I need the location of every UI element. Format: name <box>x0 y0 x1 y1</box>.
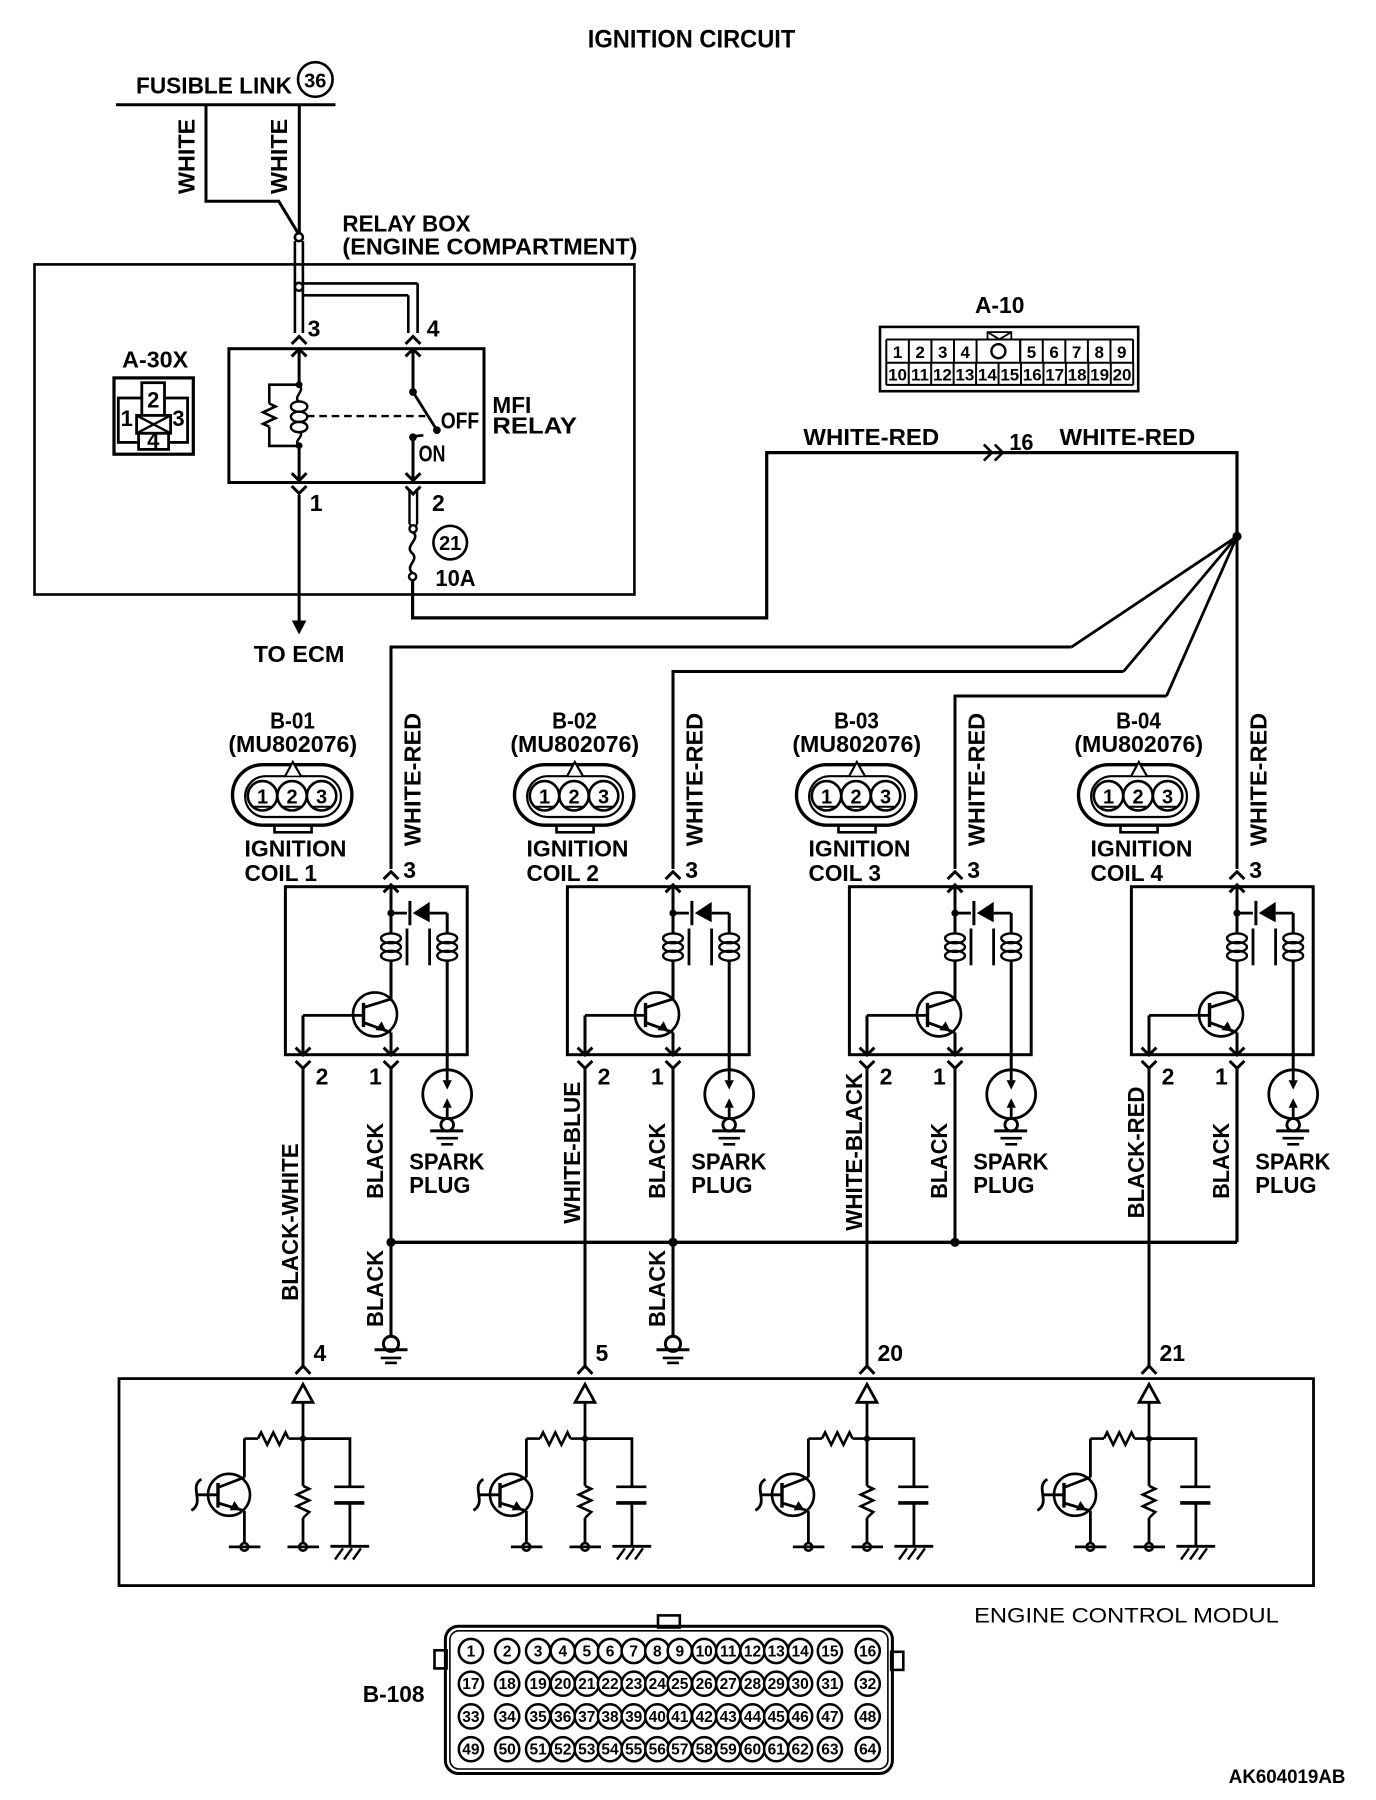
svg-text:17: 17 <box>462 1676 479 1693</box>
svg-text:PLUG: PLUG <box>409 1172 470 1198</box>
svg-text:BLACK-RED: BLACK-RED <box>1123 1087 1149 1219</box>
ECM channel 2 ground <box>612 1546 651 1559</box>
connector A-10 pin numbers <box>888 343 1131 384</box>
svg-text:11: 11 <box>911 366 929 385</box>
svg-text:6: 6 <box>1049 343 1058 362</box>
coil 1 base wire to pin 2 <box>302 1015 305 1054</box>
svg-text:RELAY: RELAY <box>492 413 577 439</box>
ECM channel 2 pulldown terminal <box>584 1518 587 1543</box>
svg-text:12: 12 <box>933 366 952 385</box>
ECM channel 4 emitter terminal <box>1089 1511 1092 1543</box>
svg-text:55: 55 <box>625 1742 643 1759</box>
spark plug 2 ground <box>712 1119 745 1145</box>
svg-text:(ENGINE COMPARTMENT): (ENGINE COMPARTMENT) <box>342 234 637 260</box>
fusible link 21 bottom terminal circle <box>409 573 416 580</box>
ignition coil 4 box <box>1131 887 1313 1055</box>
coil 4 secondary winding <box>1292 913 1295 933</box>
svg-text:63: 63 <box>821 1742 839 1759</box>
ECM channel 2 base squiggle <box>479 1493 500 1496</box>
coil 2 pin 3 arrows <box>666 872 681 879</box>
coil 2 core <box>688 929 691 966</box>
svg-text:4: 4 <box>314 1340 327 1366</box>
ECM channel 2 base resistor <box>571 1437 586 1440</box>
svg-text:1: 1 <box>121 406 133 431</box>
svg-text:IGNITION: IGNITION <box>1091 836 1193 862</box>
svg-text:45: 45 <box>768 1709 786 1726</box>
svg-text:3: 3 <box>938 343 947 362</box>
coil 2 primary winding <box>663 933 683 943</box>
coil 3 flyback diode <box>955 912 971 915</box>
wire WHITE right from fusible link <box>298 105 301 234</box>
ECM channel 1 emitter terminal <box>243 1511 246 1543</box>
coil 4 secondary wire to spark plug <box>1292 960 1295 1069</box>
svg-text:10: 10 <box>888 366 907 385</box>
svg-text:19: 19 <box>1090 366 1109 385</box>
svg-text:BLACK: BLACK <box>644 1250 670 1327</box>
svg-text:9: 9 <box>675 1644 684 1661</box>
svg-text:WHITE-RED: WHITE-RED <box>399 713 425 847</box>
fusible link 21 connector barrel <box>408 489 410 524</box>
coil 4 pin 3 arrows <box>1230 872 1245 879</box>
connector B-01 symbol <box>233 762 352 832</box>
connector A-30X symbol <box>114 378 193 454</box>
ground bus junction dot coil 1 <box>386 1238 395 1247</box>
svg-text:A-10: A-10 <box>975 292 1025 318</box>
svg-text:2: 2 <box>850 787 861 809</box>
ignition coil 1 box <box>285 887 467 1055</box>
ground bus junction dot coil 3 <box>950 1238 959 1247</box>
svg-text:1: 1 <box>310 490 323 516</box>
svg-text:44: 44 <box>744 1709 762 1726</box>
coil 3 emitter wire to pin 1 <box>954 1033 957 1055</box>
coil 1 primary wire to transistor <box>390 960 393 999</box>
svg-text:1: 1 <box>1103 787 1114 809</box>
svg-text:5: 5 <box>596 1340 609 1366</box>
coil 2 secondary wire to spark plug <box>728 960 731 1069</box>
junction node of coil feeds <box>1232 532 1241 541</box>
ground coil 2 <box>665 1336 680 1351</box>
feed diagonal to coil 2 <box>1124 536 1238 671</box>
svg-text:WHITE-RED: WHITE-RED <box>1245 713 1271 847</box>
relay wire to pin 1 <box>298 446 301 480</box>
circled 21 <box>433 526 467 560</box>
svg-text:2: 2 <box>503 1644 512 1661</box>
svg-text:PLUG: PLUG <box>1255 1172 1316 1198</box>
ECM channel 1 collector wire <box>243 1439 246 1478</box>
coil 1 secondary wire to spark plug <box>446 960 449 1069</box>
connector B-04 symbol <box>1079 762 1198 832</box>
svg-text:33: 33 <box>462 1709 480 1726</box>
svg-text:8: 8 <box>1094 343 1103 362</box>
svg-text:BLACK: BLACK <box>1208 1123 1234 1199</box>
connector B-108 shell <box>435 1615 904 1773</box>
svg-text:COIL 3: COIL 3 <box>809 860 882 886</box>
svg-text:2: 2 <box>1132 787 1143 809</box>
svg-text:7: 7 <box>629 1644 638 1661</box>
coil 4 transistor base wire <box>1149 1014 1210 1017</box>
coil 1 emitter wire to pin 1 <box>390 1033 393 1055</box>
ECM channel 1 base resistor <box>289 1437 304 1440</box>
svg-text:64: 64 <box>859 1742 877 1759</box>
svg-text:8: 8 <box>653 1644 662 1661</box>
svg-text:46: 46 <box>791 1709 809 1726</box>
ECM channel 4 ground <box>1176 1546 1215 1559</box>
svg-text:16: 16 <box>859 1644 877 1661</box>
svg-text:IGNITION: IGNITION <box>527 836 629 862</box>
ECM channel 4 pulldown resistor <box>1148 1439 1151 1486</box>
svg-text:B-108: B-108 <box>363 1681 425 1707</box>
ECM pin 5 input triangle <box>575 1384 595 1402</box>
ECM channel 3 capacitor C3 <box>867 1439 914 1487</box>
ECM channel 3 pin wire <box>866 1402 869 1438</box>
relay switch blade <box>413 392 437 430</box>
ECM pin 21 input triangle <box>1139 1384 1159 1402</box>
relay pin 1 arrows <box>292 473 307 480</box>
coil 3 primary top wire and junction dot <box>954 887 957 933</box>
svg-text:1: 1 <box>257 787 268 809</box>
svg-text:12: 12 <box>744 1644 761 1661</box>
relay switch pivot dot <box>409 388 417 396</box>
engine control module box <box>119 1379 1314 1586</box>
ECM channel 1 pulldown terminal <box>302 1518 305 1543</box>
inline connector 16 arrows <box>984 445 992 461</box>
relay box (engine compartment) outline <box>35 264 635 594</box>
svg-text:3: 3 <box>308 316 321 342</box>
ECM channel 1 base squiggle <box>197 1493 218 1496</box>
svg-text:WHITE-RED: WHITE-RED <box>963 713 989 847</box>
svg-text:B-04: B-04 <box>1116 708 1161 734</box>
connector B-03 symbol <box>797 762 916 832</box>
svg-text:18: 18 <box>499 1676 517 1693</box>
svg-text:31: 31 <box>821 1676 839 1693</box>
coil 2 emitter wire to pin 1 <box>672 1033 675 1055</box>
svg-text:39: 39 <box>625 1709 643 1726</box>
feed wire to ignition coil 2 <box>673 672 1124 870</box>
fusible link bus line <box>116 103 336 106</box>
svg-text:(MU802076): (MU802076) <box>792 731 921 757</box>
ground bus junction dot coil 2 <box>668 1238 677 1247</box>
svg-text:3: 3 <box>880 787 891 809</box>
coil 2 secondary winding <box>728 913 731 933</box>
coil 1 core <box>406 929 409 966</box>
svg-text:48: 48 <box>859 1709 877 1726</box>
ECM channel 4 capacitor C4 <box>1149 1439 1196 1487</box>
svg-text:58: 58 <box>696 1742 714 1759</box>
double-line wire branch to relay pin 4 <box>303 282 418 285</box>
ECM pin 4 input triangle <box>293 1384 313 1402</box>
svg-text:IGNITION: IGNITION <box>809 836 911 862</box>
svg-text:6: 6 <box>606 1644 615 1661</box>
svg-text:21: 21 <box>1160 1340 1186 1366</box>
svg-text:PLUG: PLUG <box>691 1172 752 1198</box>
svg-text:BLACK: BLACK <box>644 1123 670 1199</box>
coil 2 pin 1 arrows <box>666 1048 681 1055</box>
ECM channel 1 pulldown resistor <box>302 1439 305 1486</box>
svg-text:14: 14 <box>978 366 997 385</box>
connector A-10 index circle <box>991 344 1005 358</box>
coil 2 base wire to pin 2 <box>584 1015 587 1054</box>
MFI relay box <box>229 349 484 483</box>
svg-text:29: 29 <box>768 1676 786 1693</box>
coil 4 emitter wire to pin 1 <box>1236 1033 1239 1055</box>
svg-text:60: 60 <box>744 1742 761 1759</box>
coil 4 primary winding <box>1227 933 1247 943</box>
wire relay pin 1 to ECM <box>298 495 301 621</box>
relay wire to pin 2 <box>412 437 415 480</box>
ECM channel 2 pin wire <box>584 1402 587 1438</box>
relay coil top junction dot <box>296 381 303 388</box>
svg-text:AK604019AB: AK604019AB <box>1229 1767 1346 1788</box>
relay switch OFF contact dot <box>433 426 441 434</box>
svg-text:3: 3 <box>316 787 327 809</box>
ECM channel 3 base resistor <box>853 1437 868 1440</box>
wire BLACK coil 1 pin 1 <box>390 1068 393 1336</box>
spark plug 2 <box>705 1070 754 1119</box>
wire WHITE-BLACK coil 3 pin 2 to ECM <box>866 1068 869 1367</box>
svg-text:COIL 2: COIL 2 <box>527 860 600 886</box>
svg-text:2: 2 <box>147 388 159 413</box>
ECM channel 3 pulldown resistor <box>866 1439 869 1486</box>
ECM channel 4 pin wire <box>1148 1402 1151 1438</box>
coil 4 base wire to pin 2 <box>1148 1015 1151 1054</box>
svg-text:49: 49 <box>462 1742 480 1759</box>
svg-text:3: 3 <box>1162 787 1173 809</box>
feed diagonal to coil 1 <box>1072 536 1238 647</box>
ECM channel 3 node dot <box>864 1435 870 1441</box>
svg-text:10: 10 <box>696 1644 713 1661</box>
coil 1 secondary winding <box>446 913 449 933</box>
svg-text:16: 16 <box>1009 429 1033 455</box>
coil 2 transistor base wire <box>585 1014 646 1017</box>
svg-text:5: 5 <box>582 1644 591 1661</box>
coil 3 primary wire to transistor <box>954 960 957 999</box>
svg-text:3: 3 <box>534 1644 543 1661</box>
coil 3 pin 2 arrows <box>860 1048 875 1055</box>
svg-text:19: 19 <box>529 1676 547 1693</box>
coil 2 flyback diode <box>673 912 689 915</box>
svg-text:11: 11 <box>720 1644 737 1661</box>
svg-text:1: 1 <box>539 787 550 809</box>
ECM pin 20 input triangle <box>857 1384 877 1402</box>
svg-text:50: 50 <box>499 1742 516 1759</box>
ECM pin 4 arrow <box>296 1366 311 1374</box>
ECM channel 2 node dot <box>582 1435 588 1441</box>
svg-text:59: 59 <box>720 1742 738 1759</box>
svg-text:3: 3 <box>172 406 184 431</box>
coil 2 primary top wire and junction dot <box>672 887 675 933</box>
svg-text:SPARK: SPARK <box>973 1149 1049 1175</box>
ECM channel 4 node dot <box>1146 1435 1152 1441</box>
svg-text:30: 30 <box>791 1676 808 1693</box>
svg-text:21: 21 <box>439 533 461 555</box>
svg-text:20: 20 <box>1113 366 1132 385</box>
svg-text:1: 1 <box>651 1064 664 1090</box>
svg-text:21: 21 <box>578 1676 596 1693</box>
svg-text:WHITE-RED: WHITE-RED <box>681 713 707 847</box>
double-line wire to relay pin 3 <box>294 241 297 333</box>
relay coil winding <box>297 385 301 402</box>
svg-text:2: 2 <box>598 1064 611 1090</box>
svg-text:24: 24 <box>649 1676 667 1693</box>
connector B-108 pins <box>459 1639 880 1761</box>
svg-text:2: 2 <box>915 343 924 362</box>
svg-text:35: 35 <box>529 1709 547 1726</box>
svg-text:10A: 10A <box>435 565 475 591</box>
svg-text:20: 20 <box>554 1676 571 1693</box>
svg-text:57: 57 <box>671 1742 688 1759</box>
svg-text:PLUG: PLUG <box>973 1172 1034 1198</box>
svg-text:54: 54 <box>601 1742 619 1759</box>
svg-text:32: 32 <box>859 1676 876 1693</box>
svg-text:OFF: OFF <box>441 408 480 434</box>
circuit number 36 <box>298 62 333 97</box>
svg-text:2: 2 <box>316 1064 329 1090</box>
wire BLACK coil 2 pin 1 <box>672 1068 675 1336</box>
ground coil 1 <box>383 1336 398 1351</box>
svg-text:(MU802076): (MU802076) <box>1074 731 1203 757</box>
coil 1 pin 1 arrows <box>384 1048 399 1055</box>
svg-text:2: 2 <box>880 1064 893 1090</box>
spark plug 1 <box>423 1070 472 1119</box>
ECM pin 20 arrow <box>860 1366 875 1374</box>
connector A-10 keyway <box>988 332 1012 339</box>
svg-text:36: 36 <box>554 1709 572 1726</box>
coil 3 core <box>970 929 973 966</box>
svg-text:BLACK: BLACK <box>362 1250 388 1327</box>
ECM pin 21 arrow <box>1142 1366 1157 1374</box>
svg-text:ON: ON <box>419 440 446 466</box>
svg-text:1: 1 <box>369 1064 382 1090</box>
svg-text:BLACK: BLACK <box>926 1123 952 1199</box>
svg-text:4: 4 <box>427 316 440 342</box>
svg-text:(MU802076): (MU802076) <box>510 731 639 757</box>
svg-text:COIL 4: COIL 4 <box>1091 860 1164 886</box>
svg-text:15: 15 <box>821 1644 839 1661</box>
relay dashed actuation line <box>307 415 425 417</box>
feed wire to ignition coil 4 <box>1236 536 1239 869</box>
svg-text:5: 5 <box>1027 343 1036 362</box>
ECM channel 2 pulldown resistor <box>584 1439 587 1486</box>
svg-text:61: 61 <box>768 1742 786 1759</box>
ECM channel 1 ground <box>330 1546 369 1559</box>
coil 4 core <box>1252 929 1255 966</box>
coil 3 secondary wire to spark plug <box>1010 960 1013 1069</box>
coil 1 primary winding <box>381 933 401 943</box>
svg-text:4: 4 <box>558 1644 567 1661</box>
svg-text:41: 41 <box>671 1709 689 1726</box>
svg-text:FUSIBLE LINK: FUSIBLE LINK <box>136 73 292 99</box>
ECM channel 4 base squiggle <box>1043 1493 1064 1496</box>
relay pin 2 arrows <box>406 473 421 480</box>
relay pin 3 arrows <box>292 337 307 344</box>
svg-text:BLACK: BLACK <box>362 1123 388 1199</box>
ECM channel 1 node dot <box>300 1435 306 1441</box>
svg-text:9: 9 <box>1117 343 1126 362</box>
svg-text:B-03: B-03 <box>834 708 879 734</box>
svg-text:A-30X: A-30X <box>122 347 189 373</box>
svg-text:ENGINE CONTROL MODUL: ENGINE CONTROL MODUL <box>974 1604 1279 1627</box>
coil 2 primary wire to transistor <box>672 960 675 999</box>
svg-text:13: 13 <box>768 1644 786 1661</box>
coil 1 transistor base wire <box>303 1014 364 1017</box>
svg-text:34: 34 <box>499 1709 517 1726</box>
svg-text:WHITE-RED: WHITE-RED <box>1060 424 1196 450</box>
svg-text:3: 3 <box>403 857 416 883</box>
svg-text:WHITE: WHITE <box>174 119 200 194</box>
coil 2 pin 2 arrows <box>578 1048 593 1055</box>
svg-text:1: 1 <box>933 1064 946 1090</box>
ignition coil 3 box <box>849 887 1031 1055</box>
feed wire to ignition coil 1 <box>391 647 1072 869</box>
svg-text:B-01: B-01 <box>270 708 315 734</box>
ECM channel 4 base resistor <box>1135 1437 1150 1440</box>
coil 2 driver transistor <box>635 992 679 1036</box>
ECM channel 4 pulldown terminal <box>1148 1518 1151 1543</box>
ECM channel 1 transistor Q1 <box>208 1474 250 1516</box>
connector A-10 outline <box>880 327 1138 391</box>
arrow TO ECM <box>292 621 307 635</box>
relay switch wire pin 4 side <box>412 350 415 392</box>
svg-text:BLACK-WHITE: BLACK-WHITE <box>277 1143 303 1301</box>
wire BLACK-WHITE coil 1 pin 2 to ECM <box>302 1068 305 1367</box>
svg-text:20: 20 <box>878 1340 904 1366</box>
relay shunt resistor <box>269 385 299 404</box>
svg-text:B-02: B-02 <box>552 708 597 734</box>
ECM channel 3 emitter terminal <box>807 1511 810 1543</box>
svg-text:56: 56 <box>649 1742 667 1759</box>
coil 4 driver transistor <box>1199 992 1243 1036</box>
svg-text:23: 23 <box>625 1676 643 1693</box>
coil 4 primary top wire and junction dot <box>1236 887 1239 933</box>
ECM channel 2 collector wire <box>525 1439 528 1478</box>
spark plug 1 ground <box>430 1119 463 1145</box>
svg-text:1: 1 <box>1215 1064 1228 1090</box>
coil 1 flyback diode <box>391 912 407 915</box>
ignition coil 2 box <box>567 887 749 1055</box>
ECM channel 3 ground <box>894 1546 933 1559</box>
fusible link 21 element <box>410 532 415 573</box>
coil 4 flyback diode <box>1237 912 1253 915</box>
ground bus wire <box>391 1241 1237 1244</box>
svg-text:38: 38 <box>601 1709 619 1726</box>
coil 3 secondary winding <box>1010 913 1013 933</box>
coil 4 pin 1 arrows <box>1230 1048 1245 1055</box>
wire BLACK coil 3 pin 1 <box>954 1068 957 1242</box>
coil 3 transistor base wire <box>867 1014 928 1017</box>
coil 3 base wire to pin 2 <box>866 1015 869 1054</box>
svg-text:WHITE-BLUE: WHITE-BLUE <box>559 1082 585 1224</box>
svg-text:40: 40 <box>649 1709 666 1726</box>
svg-text:43: 43 <box>720 1709 738 1726</box>
svg-text:(MU802076): (MU802076) <box>228 731 357 757</box>
svg-text:62: 62 <box>791 1742 808 1759</box>
ECM channel 1 pin wire <box>302 1402 305 1438</box>
svg-text:COIL 1: COIL 1 <box>245 860 318 886</box>
connector B-02 symbol <box>515 762 634 832</box>
ECM pin 5 arrow <box>578 1366 593 1374</box>
svg-text:53: 53 <box>578 1742 596 1759</box>
wire BLACK-RED coil 4 pin 2 to ECM <box>1148 1068 1151 1367</box>
svg-text:47: 47 <box>821 1709 838 1726</box>
svg-text:3: 3 <box>1249 857 1262 883</box>
svg-text:15: 15 <box>1000 366 1019 385</box>
svg-text:3: 3 <box>598 787 609 809</box>
svg-text:26: 26 <box>696 1676 714 1693</box>
svg-text:13: 13 <box>955 366 974 385</box>
svg-text:1: 1 <box>893 343 902 362</box>
relay switch ON contact <box>409 433 417 441</box>
svg-text:28: 28 <box>744 1676 762 1693</box>
